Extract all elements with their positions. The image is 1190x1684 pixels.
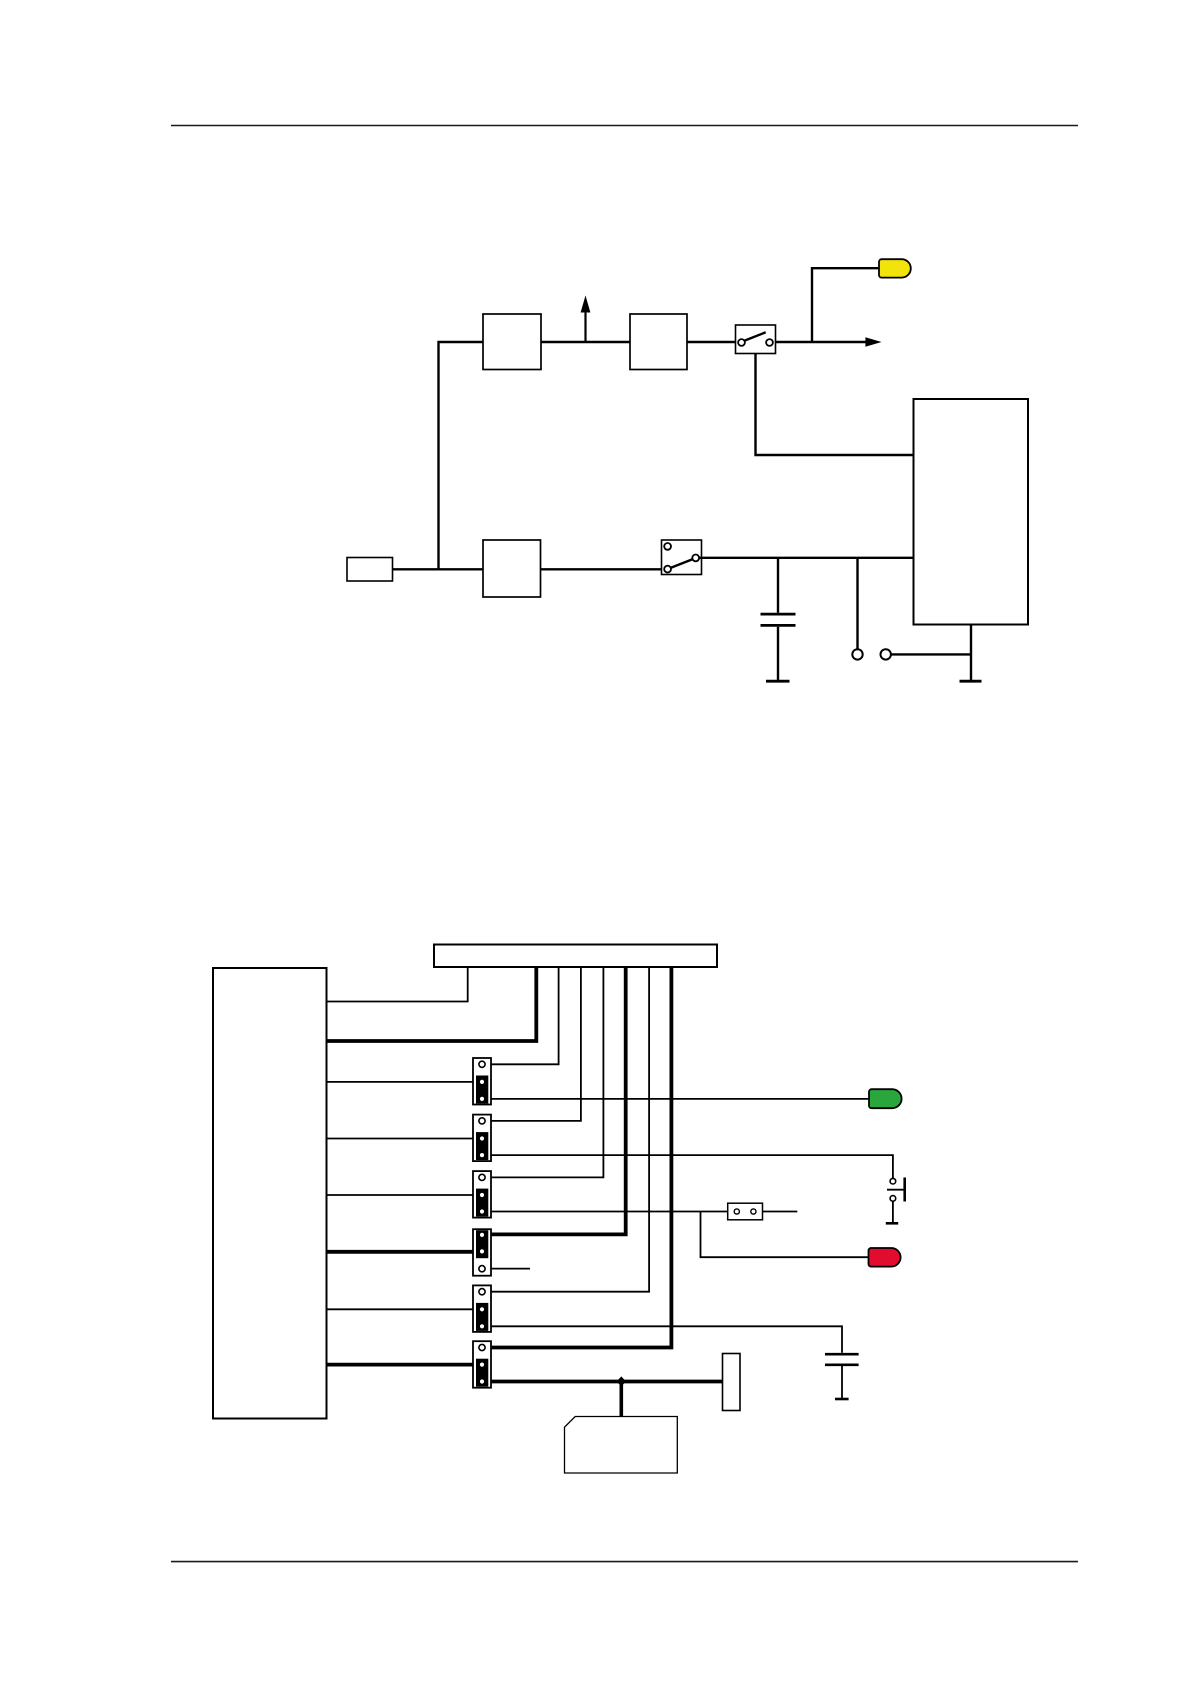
node pin P2 (open circle) — [881, 649, 972, 659]
arrow right (output) — [865, 337, 881, 347]
ground (C1) — [766, 680, 790, 683]
LED D1 yellow — [879, 259, 911, 277]
wire: JP3 to fuse F1 — [491, 1211, 728, 1213]
wire: JP5 to capacitor C2 — [491, 1326, 842, 1353]
wire: JP4 bottom stub — [491, 1268, 530, 1270]
block B1 — [483, 314, 541, 370]
wire: S2 to U1 — [699, 557, 914, 559]
wire: input box to junction — [393, 568, 484, 570]
push button SW1 — [886, 1178, 905, 1224]
block U1 (large) — [914, 399, 1029, 625]
wire: branch to LED D1 — [812, 268, 879, 342]
block B2 — [630, 314, 687, 370]
wire: S1 to output arrow — [776, 341, 867, 343]
jumper JP2 — [473, 1115, 491, 1162]
input box J1 — [347, 558, 393, 582]
wire: CN1 to JP4 top (thick) — [491, 967, 626, 1234]
switch S1 — [736, 325, 776, 354]
wire: S1 sense branch to block U1 — [756, 354, 914, 456]
ground (C2) — [835, 1398, 849, 1401]
wire: U2 to JP4 (thick) — [327, 1250, 474, 1254]
ground (U1) — [960, 680, 982, 683]
wire: JP6 to connector CN2 (thick) — [491, 1380, 723, 1384]
jumper JP3 — [473, 1171, 491, 1218]
wire: U2 to JP2 — [327, 1138, 474, 1140]
header rule — [171, 125, 1078, 127]
jumper JP1 — [473, 1058, 491, 1105]
wire: U2 pin1 to CN1 — [327, 967, 468, 1002]
wire: branch to LED D3 — [701, 1212, 869, 1258]
switch S2 — [662, 540, 702, 575]
wire: CN1 to JP2 top — [491, 967, 581, 1121]
wire: input to block B1 (up and over) — [439, 342, 484, 569]
LED D3 red — [869, 1248, 901, 1267]
block B3 — [483, 540, 541, 597]
wire: CN1 to JP6 top (thick) — [491, 967, 671, 1348]
node pin P1 (open circle) — [852, 558, 862, 660]
jumper JP4 (inverted) — [473, 1229, 491, 1276]
wire: JP1 to LED D2 — [491, 1098, 869, 1100]
connector bar CN1 — [434, 945, 717, 968]
wire: U2 to JP1 — [327, 1081, 474, 1083]
wire: CN1 to JP1 top — [491, 967, 559, 1064]
arrow up (test point) — [581, 296, 591, 343]
connector CN2 — [723, 1354, 741, 1411]
capacitor C1 — [761, 558, 796, 680]
wire: U2 to JP5 — [327, 1308, 474, 1310]
block B4 (cut corner) — [565, 1417, 678, 1474]
junction (solder dot diamond) — [617, 1376, 626, 1386]
wire: junction to block B4 (thick) — [619, 1382, 623, 1417]
jumper JP6 — [473, 1341, 491, 1388]
capacitor C2 — [825, 1354, 859, 1398]
footer rule — [171, 1561, 1078, 1563]
block U2 (left) — [213, 968, 327, 1419]
wire: fuse stub — [763, 1211, 798, 1213]
wire: CN1 to JP3 top — [491, 967, 603, 1177]
fuse F1 — [728, 1203, 763, 1220]
LED D2 green — [869, 1089, 902, 1108]
wire: CN1 to JP5 top — [491, 967, 649, 1292]
wire: U2 to JP6 (thick) — [327, 1363, 474, 1367]
wire: B3 to switch S2 — [541, 568, 665, 570]
wire: B1 to B2 — [541, 341, 630, 343]
wire: U1 ground pin — [970, 625, 972, 681]
wire: U2 pin2 to CN1 (thick) — [327, 967, 537, 1041]
wire: B2 to switch S1 — [687, 341, 736, 343]
jumper JP5 — [473, 1285, 491, 1332]
wire: U2 to JP3 — [327, 1194, 474, 1196]
wire: JP2 to push button — [491, 1155, 893, 1178]
